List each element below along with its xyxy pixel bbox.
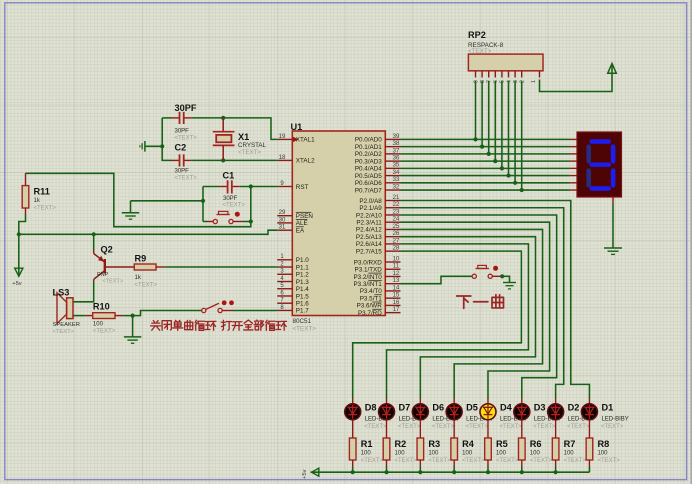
svg-text:XTAL2: XTAL2 <box>296 158 315 165</box>
svg-text:<TEXT>: <TEXT> <box>361 458 384 464</box>
svg-text:P3.5/T1: P3.5/T1 <box>360 295 383 302</box>
svg-text:R5: R5 <box>496 439 508 449</box>
svg-text:26: 26 <box>393 231 400 237</box>
svg-text:SPEAKER: SPEAKER <box>53 322 80 328</box>
svg-text:7: 7 <box>487 80 493 83</box>
svg-text:24: 24 <box>393 217 400 223</box>
svg-text:P0.1/AD1: P0.1/AD1 <box>355 144 382 151</box>
svg-text:C1: C1 <box>223 170 235 180</box>
svg-text:<TEXT>: <TEXT> <box>93 328 116 334</box>
svg-text:P3.0/RXD: P3.0/RXD <box>354 259 382 266</box>
svg-text:X1: X1 <box>238 132 249 142</box>
svg-text:<TEXT>: <TEXT> <box>175 175 198 181</box>
svg-text:100: 100 <box>496 451 507 457</box>
svg-text:39: 39 <box>393 134 400 140</box>
svg-text:100: 100 <box>564 451 575 457</box>
svg-text:R2: R2 <box>395 439 407 449</box>
svg-text:<TEXT>: <TEXT> <box>135 283 158 289</box>
svg-text:<TEXT>: <TEXT> <box>364 424 387 430</box>
svg-text:D3: D3 <box>534 403 546 413</box>
svg-text:P3.1/TXD: P3.1/TXD <box>355 267 383 274</box>
svg-text:29: 29 <box>279 210 286 216</box>
svg-text:D8: D8 <box>365 403 377 413</box>
svg-text:<TEXT>: <TEXT> <box>468 48 492 55</box>
svg-text:19: 19 <box>279 134 286 140</box>
svg-text:30: 30 <box>279 217 286 223</box>
svg-text:<TEXT>: <TEXT> <box>238 149 261 156</box>
svg-text:D7: D7 <box>399 403 411 413</box>
svg-text:<TEXT>: <TEXT> <box>395 458 418 464</box>
svg-text:P1.1: P1.1 <box>296 264 309 271</box>
svg-text:P1.2: P1.2 <box>296 272 309 279</box>
svg-text:P1.7: P1.7 <box>296 308 309 315</box>
svg-text:P2.0/A8: P2.0/A8 <box>359 198 382 205</box>
svg-text:R4: R4 <box>462 439 475 449</box>
svg-text:<TEXT>: <TEXT> <box>34 206 57 212</box>
svg-text:27: 27 <box>393 238 400 244</box>
svg-text:D5: D5 <box>466 403 478 413</box>
svg-text:30PF: 30PF <box>175 103 197 113</box>
svg-text:P2.5/A13: P2.5/A13 <box>356 234 382 241</box>
svg-text:17: 17 <box>393 307 400 313</box>
svg-text:36: 36 <box>393 156 400 162</box>
svg-text:<TEXT>: <TEXT> <box>53 329 75 335</box>
svg-text:<TEXT>: <TEXT> <box>466 424 489 430</box>
svg-text:RP2: RP2 <box>468 30 486 40</box>
svg-text:21: 21 <box>393 195 400 201</box>
svg-text:P0.5/AD5: P0.5/AD5 <box>355 173 382 180</box>
svg-text:P1.4: P1.4 <box>296 286 309 293</box>
svg-text:U1: U1 <box>291 122 303 132</box>
svg-text:25: 25 <box>393 224 400 230</box>
svg-text:34: 34 <box>393 170 400 176</box>
svg-text:P0.6/AD6: P0.6/AD6 <box>355 180 382 187</box>
svg-text:P0.2/AD2: P0.2/AD2 <box>355 151 382 158</box>
svg-text:<TEXT>: <TEXT> <box>428 458 451 464</box>
svg-text:100: 100 <box>428 451 439 457</box>
svg-text:9: 9 <box>473 80 479 83</box>
svg-text:P2.2/A10: P2.2/A10 <box>356 212 382 219</box>
svg-text:D6: D6 <box>432 403 444 413</box>
svg-text:<TEXT>: <TEXT> <box>533 424 556 430</box>
svg-text:13: 13 <box>393 278 400 284</box>
svg-text:P3.3/INT1: P3.3/INT1 <box>353 281 382 288</box>
svg-text:P0.4/AD4: P0.4/AD4 <box>355 166 382 173</box>
svg-text:3: 3 <box>513 80 519 83</box>
svg-text:<TEXT>: <TEXT> <box>530 458 553 464</box>
svg-text:P3.7/RD: P3.7/RD <box>358 310 382 317</box>
svg-text:31: 31 <box>279 225 286 231</box>
svg-text:15: 15 <box>393 293 400 299</box>
svg-text:R7: R7 <box>564 439 576 449</box>
svg-text:32: 32 <box>393 184 400 190</box>
svg-text:1: 1 <box>531 80 537 83</box>
svg-text:<TEXT>: <TEXT> <box>175 135 198 141</box>
svg-text:11: 11 <box>393 264 400 270</box>
svg-text:P1.0: P1.0 <box>296 257 309 264</box>
svg-text:<TEXT>: <TEXT> <box>293 325 317 332</box>
svg-text:+5v: +5v <box>12 281 22 287</box>
svg-text:P0.0/AD0: P0.0/AD0 <box>355 137 382 144</box>
svg-text:P2.7/A15: P2.7/A15 <box>356 248 382 255</box>
svg-text:100: 100 <box>530 451 541 457</box>
svg-text:<TEXT>: <TEXT> <box>398 424 421 430</box>
svg-text:1k: 1k <box>34 198 41 204</box>
svg-text:P3.6/WR: P3.6/WR <box>357 303 383 310</box>
svg-text:100: 100 <box>462 451 473 457</box>
svg-text:<TEXT>: <TEXT> <box>597 458 620 464</box>
svg-text:38: 38 <box>393 141 400 147</box>
svg-text:P2.6/A14: P2.6/A14 <box>356 241 382 248</box>
svg-text:<TEXT>: <TEXT> <box>601 424 624 430</box>
svg-text:P2.4/A12: P2.4/A12 <box>356 227 382 234</box>
svg-text:P3.4/T0: P3.4/T0 <box>360 288 383 295</box>
svg-text:<TEXT>: <TEXT> <box>496 458 519 464</box>
svg-text:R8: R8 <box>597 439 609 449</box>
svg-text:18: 18 <box>279 155 286 161</box>
svg-text:P0.7/AD7: P0.7/AD7 <box>355 187 382 194</box>
svg-text:LS3: LS3 <box>53 288 70 298</box>
svg-text:R10: R10 <box>93 302 110 312</box>
svg-text:12: 12 <box>393 271 400 277</box>
svg-text:LED-BIBY: LED-BIBY <box>601 416 628 422</box>
svg-text:RST: RST <box>296 184 309 191</box>
svg-text:EA: EA <box>296 228 305 235</box>
svg-text:2: 2 <box>520 80 526 83</box>
svg-text:28: 28 <box>393 246 400 252</box>
svg-text:23: 23 <box>393 209 400 215</box>
svg-text:XTAL1: XTAL1 <box>296 137 315 144</box>
svg-text:<TEXT>: <TEXT> <box>499 424 522 430</box>
svg-text:C2: C2 <box>175 143 187 153</box>
svg-text:30PF: 30PF <box>175 168 190 174</box>
svg-text:5: 5 <box>500 80 506 83</box>
svg-text:P0.3/AD3: P0.3/AD3 <box>355 158 382 165</box>
svg-text:<TEXT>: <TEXT> <box>462 458 485 464</box>
svg-text:<TEXT>: <TEXT> <box>564 458 587 464</box>
svg-text:100: 100 <box>93 321 104 327</box>
svg-text:R11: R11 <box>34 187 50 197</box>
svg-text:<TEXT>: <TEXT> <box>432 424 455 430</box>
svg-text:R6: R6 <box>530 439 542 449</box>
svg-text:8: 8 <box>480 80 486 83</box>
svg-text:35: 35 <box>393 163 400 169</box>
svg-text:R9: R9 <box>135 254 147 264</box>
svg-text:100: 100 <box>361 451 372 457</box>
svg-text:D2: D2 <box>568 403 580 413</box>
svg-text:22: 22 <box>393 202 400 208</box>
svg-text:D4: D4 <box>500 403 513 413</box>
svg-text:80C51: 80C51 <box>293 318 312 325</box>
svg-text:30PF: 30PF <box>223 196 238 202</box>
svg-text:R3: R3 <box>428 439 440 449</box>
svg-text:10: 10 <box>393 256 400 262</box>
svg-text:P1.5: P1.5 <box>296 293 309 300</box>
svg-text:P1.3: P1.3 <box>296 279 309 286</box>
svg-text:30PF: 30PF <box>175 129 190 135</box>
svg-text:37: 37 <box>393 148 400 154</box>
svg-text:16: 16 <box>393 300 400 306</box>
svg-text:4: 4 <box>506 80 512 83</box>
svg-text:+5v: +5v <box>302 469 308 479</box>
svg-text:ALE: ALE <box>296 220 308 227</box>
svg-text:R1: R1 <box>361 439 373 449</box>
svg-text:Q2: Q2 <box>101 245 113 255</box>
svg-text:PSEN: PSEN <box>296 213 314 220</box>
svg-text:<TEXT>: <TEXT> <box>223 203 246 209</box>
svg-text:1k: 1k <box>135 275 142 281</box>
svg-text:PNP: PNP <box>97 272 109 278</box>
svg-text:100: 100 <box>395 451 406 457</box>
svg-text:P2.1/A9: P2.1/A9 <box>359 205 382 212</box>
svg-text:<TEXT>: <TEXT> <box>103 278 123 284</box>
svg-text:D1: D1 <box>601 403 613 413</box>
svg-text:33: 33 <box>393 177 400 183</box>
svg-text:P1.6: P1.6 <box>296 301 309 308</box>
svg-text:6: 6 <box>493 80 499 83</box>
svg-text:100: 100 <box>597 451 608 457</box>
svg-text:14: 14 <box>393 285 400 291</box>
svg-text:<TEXT>: <TEXT> <box>567 424 590 430</box>
svg-text:P3.2/INT0: P3.2/INT0 <box>353 274 382 281</box>
svg-text:P2.3/A11: P2.3/A11 <box>356 220 382 227</box>
